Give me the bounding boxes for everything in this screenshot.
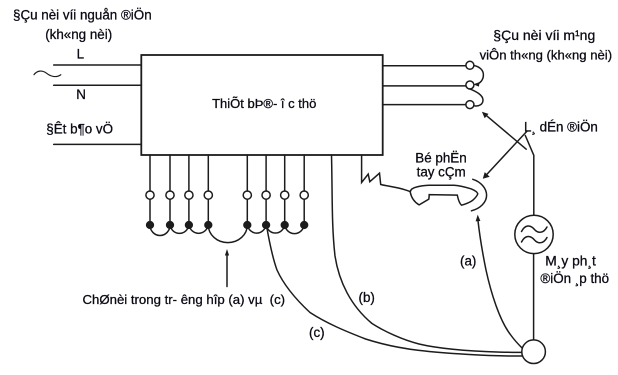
svg-text:(c): (c) (309, 325, 325, 340)
svg-text:N: N (76, 87, 86, 102)
wire c from dot 6 (266, 225, 522, 356)
svg-text:§Çu nèi víi m¹ng: §Çu nèi víi m¹ng (493, 27, 595, 43)
link arc 4-5 wide (208, 225, 247, 243)
generator circle (515, 215, 553, 253)
svg-text:ChØnèi trong tr- êng hîp (a) v: ChØnèi trong tr- êng hîp (a) vµ (c) (83, 292, 286, 307)
pin circle 3 (185, 191, 193, 199)
link arc 6-7 (266, 225, 285, 233)
link arc 2-3 (170, 225, 189, 233)
wire protective earth (54, 143, 142, 145)
AC mains tilde symbol (34, 71, 61, 76)
pin circle 8 (300, 191, 308, 199)
link arc 7-8 (285, 225, 305, 234)
terminal T2 (466, 81, 474, 89)
generator wave 1 (522, 226, 548, 232)
svg-text:viÔn th«ng (kh«ng nèi): viÔn th«ng (kh«ng nèi) (480, 47, 612, 62)
junction dot 3 (186, 222, 193, 229)
wire a from foil to node (478, 219, 523, 348)
junction dot 4 (205, 222, 212, 229)
svg-text:(a): (a) (460, 254, 476, 269)
svg-text:ThiÕt bÞ®- î c thö: ThiÕt bÞ®- î c thö (212, 96, 316, 111)
wire label leader to generator (525, 136, 534, 216)
terminal T1 (466, 61, 474, 69)
wire telecom 1 (383, 65, 466, 67)
pin line 4 (207, 155, 209, 222)
link arc 5-6 (247, 225, 266, 233)
svg-text:L¸ dÉn ®iÖn: L¸ dÉn ®iÖn (524, 120, 598, 135)
handset outline (410, 185, 478, 205)
handset cord from box (362, 156, 410, 192)
svg-text:tay cÇm: tay cÇm (417, 165, 466, 180)
arrow to middle arc (226, 254, 228, 287)
conductive foil arc around handset (471, 179, 486, 211)
pin line 3 (188, 155, 190, 222)
svg-text:M¸y ph¸t: M¸y ph¸t (545, 254, 596, 269)
wire L (54, 64, 142, 66)
svg-text:Bé phËn: Bé phËn (415, 150, 466, 165)
svg-text:§Êt b¶o vÖ: §Êt b¶o vÖ (46, 122, 113, 137)
pin line 7 (284, 155, 286, 222)
generator wave 2 (522, 236, 548, 242)
svg-text:(kh«ng nèi): (kh«ng nèi) (45, 27, 112, 42)
pin line 8 (303, 155, 305, 222)
svg-text:L: L (77, 47, 84, 62)
junction dot 7 (281, 222, 288, 229)
pin circle 2 (166, 191, 174, 199)
wire generator to node (533, 254, 535, 341)
node circle (522, 340, 546, 364)
pin line 6 (265, 155, 267, 222)
wire N (54, 84, 142, 86)
wire telecom 2 (383, 85, 466, 87)
junction dot 2 (167, 222, 174, 229)
pin line 5 (246, 155, 248, 222)
junction dot 6 (263, 222, 270, 229)
junction dot 8 (301, 222, 308, 229)
wire telecom 3 (383, 104, 466, 106)
terminal T3 (466, 101, 474, 109)
pin circle 1 (146, 191, 154, 199)
link arc 1-2 (150, 225, 170, 236)
equipment under test box (141, 55, 382, 155)
junction dot 1 (147, 222, 154, 229)
svg-text:(b): (b) (359, 290, 375, 305)
arrowhead of wire a (476, 215, 481, 222)
jumper arc T2-T3 (470, 89, 483, 106)
jumper arc T1-T2 arrowhead (474, 82, 480, 87)
pin circle 7 (281, 191, 289, 199)
wire b from box (332, 155, 523, 352)
pin line 2 (169, 155, 171, 222)
jumper arc T1-T2 (474, 66, 483, 85)
pin circle 6 (262, 191, 270, 199)
pin circle 4 (204, 191, 212, 199)
svg-text:®iÖn ¸p thö: ®iÖn ¸p thö (540, 271, 609, 286)
junction dot 5 (244, 222, 251, 229)
svg-text:§Çu nèi víi nguån ®iÖn: §Çu nèi víi nguån ®iÖn (13, 8, 152, 23)
pin circle 5 (243, 191, 251, 199)
pin line 1 (149, 155, 151, 222)
link arc 3-4 (189, 225, 208, 233)
arrow to telecom terminals (486, 115, 527, 149)
arrow to foil (486, 131, 527, 175)
